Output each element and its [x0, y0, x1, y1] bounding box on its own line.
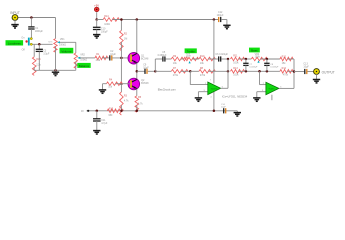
wire rail to R2 — [120, 20, 122, 31]
junction rail R3 — [120, 110, 123, 113]
bottom rail — [87, 110, 238, 112]
resistor R5 — [135, 96, 139, 112]
wire junction to R8 — [190, 70, 199, 72]
R13 labels — [233, 67, 239, 77]
wire R12 corner to output node — [287, 59, 294, 72]
wire U1 Vminus — [213, 92, 215, 111]
junction rail R2 — [120, 18, 123, 21]
svg-text:100kΩ: 100kΩ — [59, 44, 66, 47]
wire R14b to output node — [287, 70, 294, 72]
svg-text:100kΩ: 100kΩ — [80, 58, 87, 61]
R10 labels — [200, 55, 205, 65]
switch SW1 loudness — [25, 38, 32, 46]
svg-text:C6 0.022µF: C6 0.022µF — [215, 53, 228, 56]
resistor R2 — [120, 30, 124, 50]
svg-text:10µF: 10µF — [110, 53, 116, 56]
R5 labels — [138, 96, 143, 106]
resistor R14 — [103, 18, 119, 22]
wire C1 to switch — [30, 29, 32, 38]
VR1 value label — [59, 44, 66, 47]
U2 pin2 label — [263, 83, 265, 85]
junction U2 inverting tap — [258, 70, 261, 73]
ground rail end — [234, 111, 241, 116]
C10 ground — [93, 30, 100, 39]
potentiometer VR4 track — [251, 57, 267, 60]
wire R13 to bass — [239, 70, 280, 72]
wire VR2 bottom — [75, 62, 77, 71]
wire C9 to split — [148, 70, 156, 72]
svg-text:0.068µF: 0.068µF — [158, 54, 167, 57]
wire C3 bottom — [38, 51, 40, 70]
svg-text:4.7k: 4.7k — [138, 103, 143, 106]
capacitor C6 — [219, 56, 221, 61]
junction rail start — [87, 110, 89, 112]
svg-text:OUTPUT: OUTPUT — [322, 70, 335, 74]
R14b labels — [282, 67, 289, 77]
terminal +9V — [94, 7, 99, 12]
resistor R12 — [280, 57, 293, 61]
wire C6 to node — [221, 58, 228, 60]
wire row1 riser — [155, 59, 162, 71]
wire R16 bottom — [33, 67, 35, 70]
wire C7 bottom — [245, 65, 247, 71]
capacitor C1 — [28, 27, 34, 29]
OUTPUT label — [322, 70, 335, 74]
svg-text:10µF: 10µF — [303, 65, 309, 68]
ground U1 plus — [195, 92, 202, 102]
junction bass cap C7 bottom — [245, 70, 248, 73]
op-amp U1 — [208, 82, 221, 95]
VR4 labels — [255, 53, 261, 58]
svg-text:100k: 100k — [186, 55, 192, 58]
VR2 value label — [80, 58, 87, 61]
wire R5 to rail — [136, 105, 138, 111]
wire R11 to bass node — [239, 58, 252, 60]
wire R3 to bottom rail — [120, 105, 122, 111]
R12 labels — [282, 56, 287, 65]
capacitor C8b — [264, 63, 269, 65]
capacitor C5 — [163, 56, 165, 61]
capacitor C1 value label — [35, 27, 44, 33]
resistor R16 — [32, 57, 36, 76]
resistor R11 — [231, 57, 245, 61]
U2 pin3 label — [262, 90, 264, 92]
wire Q1 emitter to Q2 collector — [136, 63, 138, 80]
svg-text:ElecCircuit.com: ElecCircuit.com — [158, 87, 176, 91]
junction C9 branch — [136, 70, 139, 73]
wire U1 output — [221, 59, 228, 88]
svg-text:0.047µF: 0.047µF — [249, 67, 258, 69]
junction rail Q1 collector — [136, 18, 139, 21]
R7 labels — [173, 67, 179, 77]
ground C12 — [223, 25, 230, 28]
wire R10 to C6 — [208, 58, 218, 60]
resistor R16 stem — [33, 44, 35, 57]
Q2 labels — [141, 79, 149, 85]
label Volume — [60, 48, 74, 54]
R4 labels — [108, 79, 113, 89]
U1 pin3 label — [204, 90, 213, 99]
potentiometer VR2 track — [74, 53, 77, 68]
svg-text:VR2: VR2 — [80, 54, 85, 57]
svg-text:Off: Off — [22, 49, 25, 52]
R11 labels — [233, 55, 239, 65]
junction node A — [30, 16, 33, 19]
svg-text:BC548: BC548 — [141, 82, 149, 85]
capacitor C10 stem — [96, 20, 98, 28]
svg-text:ICs=LF351, NE5534: ICs=LF351, NE5534 — [222, 94, 248, 98]
svg-text:Bass: Bass — [251, 49, 258, 53]
label Balance — [77, 63, 90, 68]
capacitor C3 labels — [43, 49, 50, 55]
junction bass right node — [266, 58, 269, 61]
label Bass — [249, 48, 260, 53]
svg-text:270k: 270k — [173, 74, 179, 77]
R9 labels — [173, 55, 178, 65]
label Loudness — [6, 40, 24, 45]
wire C12 to ground — [221, 20, 227, 26]
svg-text:R15: R15 — [109, 109, 114, 111]
svg-text:0.047µF: 0.047µF — [270, 67, 279, 69]
C11 labels — [101, 119, 108, 125]
wire C5 to R9 — [166, 58, 172, 60]
+9V terminal label — [94, 4, 99, 8]
resistor R15 — [107, 109, 120, 113]
VR3 wiper — [189, 61, 191, 63]
capacitor C3 — [36, 49, 43, 51]
wire VR1 wiper to VR2 — [60, 42, 76, 53]
junction Q1 base node — [120, 57, 123, 60]
C10 labels — [101, 28, 108, 34]
svg-text:10µF: 10µF — [221, 107, 227, 109]
svg-text:4.7k: 4.7k — [124, 100, 129, 103]
switch label On — [21, 36, 25, 39]
capacitor C13 — [305, 69, 307, 74]
wire U2 output — [279, 72, 294, 89]
wire row2 to R7 — [155, 70, 171, 72]
svg-text:100µF: 100µF — [101, 31, 108, 34]
capacitor C9 — [145, 69, 147, 74]
wire R4 to Q2 base node — [116, 83, 122, 85]
junction U1 output node row2 — [227, 70, 230, 73]
wire VR3 to R10 — [192, 58, 199, 60]
capacitor C8 stem — [266, 59, 268, 63]
svg-text:R11: R11 — [233, 55, 238, 58]
junction rail U1 Vminus — [213, 110, 216, 113]
wire Q2 base — [121, 83, 130, 85]
wire Q to C9 — [137, 70, 145, 72]
svg-text:270k: 270k — [200, 74, 206, 77]
wire U2 non-inverting — [257, 91, 266, 93]
junction rail R5 — [136, 110, 139, 113]
svg-text:1M: 1M — [124, 38, 127, 41]
VR1 name label — [60, 38, 65, 41]
VR2 name label — [80, 54, 85, 57]
svg-text:R13: R13 — [233, 67, 238, 70]
potentiometer VR1 wiper — [57, 41, 60, 43]
potentiometer VR1 track — [54, 39, 57, 53]
label Treble — [185, 48, 197, 53]
capacitor C10 — [93, 27, 101, 29]
C11 ground — [93, 121, 100, 134]
svg-text:R14: R14 — [104, 15, 109, 18]
node INPUT label — [10, 11, 20, 15]
junction C11 node — [96, 110, 99, 113]
ground U2 plus — [253, 92, 260, 102]
C9 labels — [143, 64, 149, 70]
junction ground bus — [54, 69, 57, 72]
C2 labels — [110, 50, 116, 56]
wire ground bus left — [34, 69, 76, 71]
wire to R3 — [120, 84, 122, 92]
capacitor C7 — [243, 63, 248, 65]
R1 labels — [96, 53, 101, 62]
R2 labels — [124, 32, 128, 40]
C12 labels — [217, 11, 224, 17]
VR4 wiper — [257, 60, 259, 62]
resistor R16 labels — [36, 58, 41, 66]
switch label Off — [22, 49, 25, 52]
potentiometer VR3 track — [184, 57, 199, 60]
IC note label — [222, 94, 248, 98]
capacitor C1 stem top — [30, 18, 32, 27]
VR3 labels — [186, 52, 192, 58]
op-amp U2 — [266, 82, 279, 95]
connector J2 OUTPUT — [314, 69, 320, 75]
connector J1 INPUT — [12, 15, 18, 21]
resistor R13 — [231, 70, 245, 74]
C13 labels — [303, 63, 309, 69]
wire U1 inverting — [190, 71, 208, 84]
svg-text:1000µF: 1000µF — [35, 30, 44, 33]
top rail — [112, 19, 218, 21]
C8b labels — [270, 64, 279, 69]
wire VR4 to bass right node — [261, 58, 280, 60]
capacitor C12 — [219, 17, 221, 22]
wire base node down — [120, 58, 122, 84]
junction row1 R11 node — [227, 58, 230, 61]
wire gnd to R4 — [103, 83, 107, 85]
wire C13 to OUTPUT — [308, 71, 317, 73]
wire V+ rail to U1 — [213, 20, 215, 84]
ground R4 for Q2 base — [99, 84, 106, 94]
capacitor C11 — [93, 119, 101, 121]
wire VR1 top — [55, 18, 57, 39]
wire rail to Q1 collector — [136, 20, 138, 54]
resistor R1 — [95, 56, 108, 60]
VR1 percent label — [48, 42, 52, 44]
svg-text:TL071: TL071 — [268, 88, 275, 90]
wire U2 inverting — [260, 71, 266, 84]
Q1 labels — [141, 54, 149, 60]
wire node to C13 — [294, 71, 304, 73]
svg-text:Loudness: Loudness — [8, 41, 22, 45]
wire R7 to junction — [181, 70, 191, 72]
watermark — [158, 87, 176, 91]
resistor R9 — [171, 57, 188, 61]
capacitor C7 stem — [245, 59, 247, 63]
wire supply to R14 — [97, 19, 104, 21]
junction loudness net — [38, 43, 41, 46]
resistor R8 — [199, 70, 215, 74]
C5 labels — [158, 51, 167, 57]
ground OUTPUT — [313, 74, 320, 83]
junction output node — [293, 70, 296, 73]
wire U1 non-inverting — [198, 91, 207, 93]
svg-text:100k: 100k — [233, 61, 239, 64]
svg-text:VR1: VR1 — [60, 38, 65, 41]
svg-text:R10: R10 — [200, 55, 205, 58]
wire R2 to base node — [120, 42, 122, 58]
junction bass left node — [245, 58, 248, 61]
R14 labels — [104, 15, 110, 26]
wire R9 to VR3 — [181, 58, 184, 60]
svg-text:BC548: BC548 — [141, 57, 149, 60]
svg-text:Treble: Treble — [187, 49, 195, 53]
C14 label — [221, 104, 227, 109]
ground at volume pot — [52, 70, 59, 75]
C7 labels — [249, 64, 258, 69]
resistor R3 — [120, 92, 124, 115]
resistor R10 — [199, 57, 215, 61]
wire Q2 emitter to R5 — [136, 89, 138, 96]
resistor R7 — [171, 70, 188, 74]
resistor R14b — [280, 70, 293, 74]
capacitor C14 — [224, 108, 226, 113]
svg-text:470k: 470k — [283, 74, 289, 77]
junction Q2 base node — [120, 82, 123, 85]
transistor Q1 — [128, 52, 140, 64]
ground below INPUT — [11, 20, 18, 28]
svg-text:Volume: Volume — [61, 49, 71, 53]
capacitor C3 stem — [38, 44, 40, 49]
junction U1 inverting tap — [189, 70, 192, 73]
svg-text:TL071: TL071 — [211, 88, 218, 90]
wire input to VR1 top — [15, 17, 56, 19]
C6 labels — [215, 53, 228, 56]
svg-text:100µF: 100µF — [217, 14, 224, 17]
svg-text:Balance: Balance — [79, 64, 90, 68]
U1 pin2 label — [205, 79, 212, 84]
svg-text:10µF: 10µF — [143, 66, 149, 69]
0V label — [81, 111, 84, 113]
capacitor C2 — [110, 55, 112, 60]
wire R8 to U1 out node — [208, 70, 228, 72]
svg-text:100k: 100k — [233, 74, 239, 77]
junction bass cap C8 bottom — [266, 70, 269, 73]
transistor Q2 — [128, 78, 140, 90]
svg-text:0V: 0V — [81, 111, 84, 113]
R8 labels — [200, 67, 206, 77]
junction rail opamp V+ — [213, 18, 216, 21]
svg-text:50%: 50% — [48, 42, 52, 44]
svg-text:R12: R12 — [282, 56, 287, 59]
svg-text:2.2k: 2.2k — [96, 59, 101, 62]
wire VR1 bottom — [55, 46, 57, 70]
wire +9V down — [96, 12, 98, 19]
junction row split — [154, 70, 157, 73]
wire R1 to C2 — [102, 57, 109, 59]
svg-text:3.3µF: 3.3µF — [43, 52, 50, 55]
wire VR2 wiper to R1 — [80, 57, 95, 59]
wire C2 to Q1 base — [112, 57, 130, 59]
svg-text:100Ω: 100Ω — [104, 23, 110, 26]
wire C8 bottom — [266, 65, 268, 71]
wire U2 Vminus stub — [271, 95, 273, 101]
capacitor C11 stem — [96, 111, 98, 119]
svg-text:R16: R16 — [36, 58, 41, 61]
wire switch to loudness network — [31, 43, 52, 45]
potentiometer VR2 wiper — [77, 57, 80, 59]
resistor R4 — [107, 82, 123, 86]
R15 labels — [109, 109, 114, 118]
svg-text:R14: R14 — [282, 67, 287, 70]
R3 labels — [124, 94, 129, 102]
svg-text:4.7µF: 4.7µF — [101, 122, 108, 125]
junction supply — [95, 18, 98, 21]
svg-text:100k: 100k — [255, 55, 261, 58]
